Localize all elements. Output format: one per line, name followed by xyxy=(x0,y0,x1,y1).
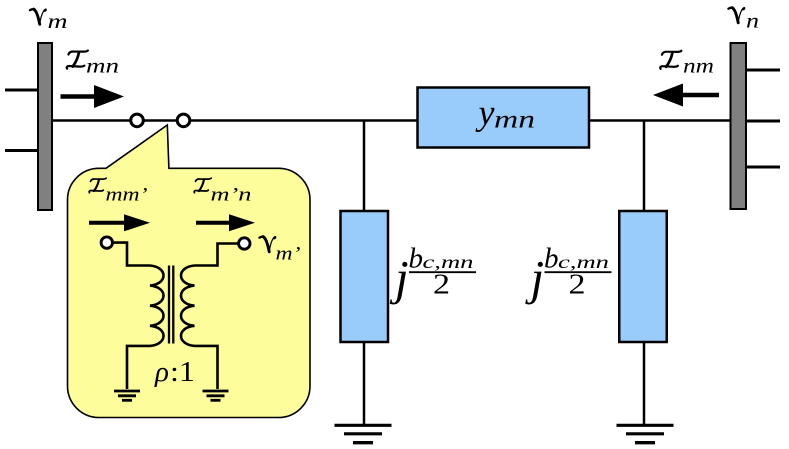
svg-text::1: :1 xyxy=(170,356,195,388)
transformer core xyxy=(169,266,173,344)
label Vm xyxy=(30,8,68,33)
svg-text:2: 2 xyxy=(569,270,586,301)
callout bubble xyxy=(68,125,311,418)
wire left shunt drop xyxy=(363,121,366,213)
bus bar Vn xyxy=(731,43,747,209)
terminal circle left on main line xyxy=(131,114,144,127)
svg-text:2: 2 xyxy=(433,270,450,301)
label Vm' xyxy=(259,236,300,265)
wire transformer primary to ground xyxy=(127,346,150,389)
svg-text:nm: nm xyxy=(683,54,714,78)
current arrow Imn xyxy=(61,85,125,108)
bus bar Vm xyxy=(38,43,52,210)
shunt box right jbc/2 xyxy=(619,211,667,342)
svg-text:b: b xyxy=(544,243,559,275)
bus Vm feeder stub 2 xyxy=(5,149,39,152)
admittance box ymn xyxy=(418,88,590,148)
current arrow Imm' xyxy=(89,214,150,231)
transformer secondary winding xyxy=(181,266,195,346)
label Imm' xyxy=(89,178,147,205)
terminal circle m side xyxy=(101,237,112,248)
svg-text:j: j xyxy=(525,250,545,305)
wire left shunt to ground xyxy=(363,342,366,425)
bus Vm feeder stub 1 xyxy=(5,89,39,92)
bus Vn feeder stub 1 xyxy=(745,69,780,72)
svg-text:m: m xyxy=(48,9,68,33)
bus Vn feeder stub 2 xyxy=(745,120,780,123)
wire transformer secondary lead xyxy=(195,244,239,266)
label Im'n xyxy=(194,178,251,205)
ground transformer primary xyxy=(114,391,140,400)
label rho:1 xyxy=(154,356,195,388)
shunt box left jbc/2 xyxy=(341,211,389,342)
svg-text:b: b xyxy=(409,243,424,275)
svg-text:mn: mn xyxy=(494,107,535,134)
svg-text:y: y xyxy=(476,93,495,133)
wire main line m to n xyxy=(52,119,730,122)
svg-text:n: n xyxy=(746,9,759,33)
wire right shunt drop xyxy=(643,121,646,213)
wire right shunt to ground xyxy=(643,342,646,425)
svg-text:ρ: ρ xyxy=(154,356,169,388)
ground left shunt xyxy=(335,425,392,442)
label ymn xyxy=(476,93,536,134)
label j bc,mn/2 left xyxy=(389,243,476,306)
svg-text:m’: m’ xyxy=(276,244,301,265)
label Vn xyxy=(728,7,759,33)
label j bc,mn/2 right xyxy=(525,243,612,306)
terminal circle m' side xyxy=(239,238,250,249)
wire transformer secondary to ground xyxy=(195,346,218,389)
label Inm xyxy=(660,51,714,78)
ground right shunt xyxy=(617,425,674,442)
transformer primary winding xyxy=(150,266,164,346)
svg-text:m’n: m’n xyxy=(211,185,252,206)
label Imn xyxy=(67,51,119,78)
wire transformer primary lead xyxy=(113,243,151,266)
current arrow Inm xyxy=(653,84,719,107)
current arrow Im'n xyxy=(196,214,255,231)
svg-text:mm’: mm’ xyxy=(106,185,148,206)
svg-text:j: j xyxy=(389,250,409,305)
svg-text:mn: mn xyxy=(86,54,119,78)
terminal circle right on main line xyxy=(177,114,190,127)
ground transformer secondary xyxy=(203,391,229,400)
bus Vn feeder stub 3 xyxy=(745,166,780,169)
